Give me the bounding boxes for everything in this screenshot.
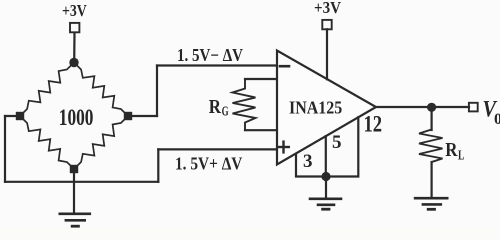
ground (bridge) bbox=[60, 214, 90, 226]
svg-text:1. 5V+ ΔV: 1. 5V+ ΔV bbox=[175, 153, 242, 173]
wire -input (1.5V-dV) to op-amp bbox=[157, 64, 277, 66]
wire pin 12 bbox=[326, 117, 359, 176]
wire bridge right node rightward bbox=[128, 115, 157, 117]
wire RL to ground bbox=[431, 162, 433, 198]
node output junction bbox=[427, 103, 436, 112]
terminal +3V (bridge) bbox=[70, 23, 79, 32]
resistor RG zigzag bbox=[233, 79, 256, 130]
svg-text:R: R bbox=[209, 96, 222, 118]
wire riser up to +input wire bbox=[157, 149, 159, 181]
svg-text:INA125: INA125 bbox=[289, 98, 343, 118]
op-amp U1 INA125 body bbox=[277, 51, 376, 165]
svg-text:1. 5V− ΔV: 1. 5V− ΔV bbox=[177, 45, 243, 65]
node bridge bottom (junction dot) bbox=[70, 165, 78, 173]
wire pin 5 bbox=[325, 136, 327, 176]
svg-text:1000: 1000 bbox=[59, 105, 94, 131]
node bridge left (junction dot) bbox=[16, 112, 24, 120]
wire bridge left node to left rail bbox=[5, 115, 20, 117]
wire: +3V terminal to bridge top bbox=[73, 33, 76, 62]
resistor bridge arm top-right bbox=[74, 63, 128, 117]
wire pin 3 bbox=[296, 154, 326, 177]
wire bottom rail to +input riser bbox=[5, 181, 158, 183]
resistor bridge arm top-left bbox=[20, 63, 74, 117]
svg-text:L: L bbox=[458, 147, 464, 162]
resistor RG loop: bottom stub bbox=[245, 129, 277, 131]
wire +input (1.5V+dV) to op-amp bbox=[158, 148, 277, 150]
wire bridge bottom to ground bbox=[73, 169, 75, 214]
svg-text:R: R bbox=[445, 139, 458, 161]
node pins 3-5-12 junction bbox=[321, 172, 330, 181]
wire +3V to op-amp top edge bbox=[326, 29, 328, 79]
resistor bridge arm bottom-left bbox=[20, 116, 74, 169]
svg-text:12: 12 bbox=[364, 112, 383, 137]
resistor RG loop: top stub bbox=[245, 78, 277, 80]
resistor RL zigzag bbox=[419, 130, 443, 163]
ground (op-amp reference) bbox=[310, 199, 341, 209]
node bridge top (junction dot) bbox=[69, 58, 78, 67]
wire op-amp output bbox=[376, 106, 469, 108]
svg-text:3: 3 bbox=[303, 151, 313, 172]
svg-text:G: G bbox=[222, 105, 229, 120]
svg-text:+3V: +3V bbox=[314, 0, 342, 17]
svg-text:0: 0 bbox=[494, 111, 500, 128]
resistor bridge arm bottom-right bbox=[74, 116, 128, 169]
wire riser up to -input wire bbox=[156, 66, 158, 117]
svg-text:5: 5 bbox=[332, 132, 342, 153]
terminal Vo bbox=[469, 103, 478, 112]
wire output node down to RL bbox=[431, 107, 433, 130]
wire left rail down bbox=[4, 116, 6, 182]
op-amp plus input mark bbox=[278, 142, 289, 153]
ground (RL) bbox=[415, 198, 447, 209]
op-amp minus input mark bbox=[280, 65, 289, 68]
svg-text:+3V: +3V bbox=[62, 1, 87, 20]
wire junction to ground bbox=[325, 177, 327, 199]
terminal +3V (op-amp) bbox=[322, 20, 331, 29]
node bridge right (junction dot) bbox=[124, 112, 132, 120]
